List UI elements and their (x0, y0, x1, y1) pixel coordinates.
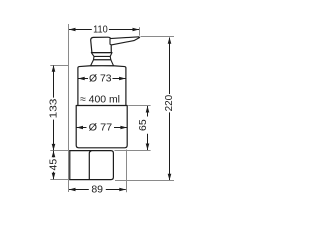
extension line 65 top (128, 105, 150, 107)
pump neck pinch (91, 53, 112, 57)
dimension 65 (147, 106, 149, 150)
pump spout lever (110, 37, 140, 45)
pump collar / skirt (91, 60, 114, 66)
dimension 133 (53, 66, 55, 151)
dimension Ø 77 (bottle diameter lower) (77, 127, 127, 129)
extension line 220 top (141, 36, 175, 38)
bottle upper body (Ø 73) (78, 66, 126, 106)
extension line 45 bottom (50, 179, 70, 181)
extension line 133/45 middle (50, 150, 70, 152)
svg-text:≈ 400 ml: ≈ 400 ml (80, 94, 120, 106)
extension line 89 right (126, 150, 128, 193)
extension line 133 top (50, 65, 68, 67)
extension line 220 bottom (115, 180, 174, 182)
svg-text:45: 45 (47, 159, 59, 171)
pump cap (91, 37, 112, 52)
extension line 65 bottom (114, 150, 150, 152)
dimension 45 (53, 151, 55, 180)
holder bracket inner edge (89, 151, 91, 180)
svg-text:Ø 77: Ø 77 (89, 122, 113, 134)
dimension 89 (69, 189, 126, 191)
svg-text:220: 220 (163, 95, 175, 112)
holder bracket body (70, 151, 114, 180)
wall / extension line (left reference plane) (68, 24, 70, 192)
dimension 220 (169, 38, 171, 181)
bottle lower body (Ø 77) (76, 106, 127, 148)
svg-text:65: 65 (137, 119, 149, 131)
dimension Ø 73 (bottle diameter) (78, 78, 125, 80)
svg-text:89: 89 (91, 184, 103, 196)
svg-text:Ø 73: Ø 73 (89, 73, 112, 85)
svg-text:110: 110 (93, 24, 108, 36)
svg-text:133: 133 (47, 98, 59, 118)
extension line 110 right (spout tip) (139, 27, 141, 35)
dimension 110 (69, 29, 139, 31)
pump neck band (94, 56, 111, 59)
